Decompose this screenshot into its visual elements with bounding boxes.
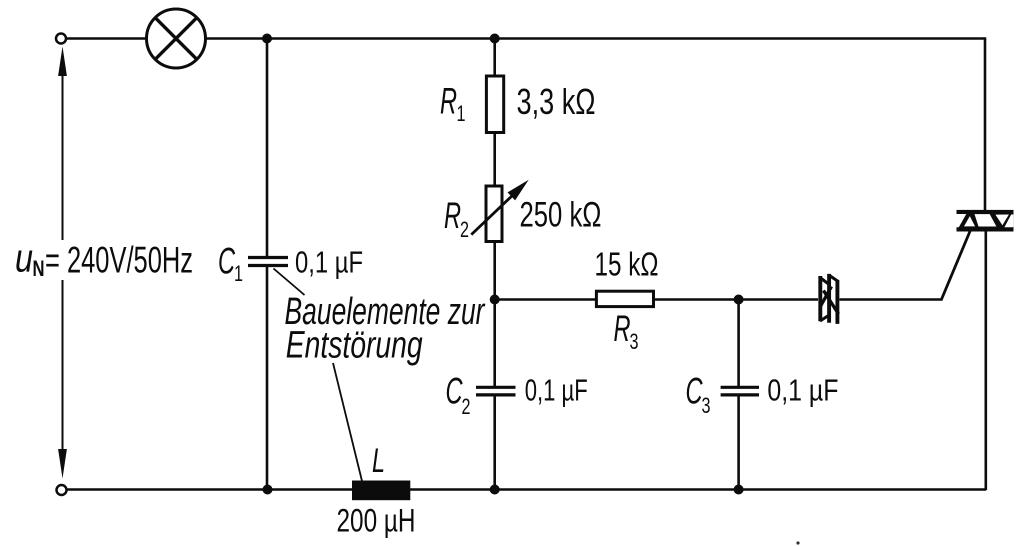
annotation Bauelemente zur Entstoerung	[285, 291, 486, 367]
stray dot artifact	[796, 541, 799, 544]
wire right vertical lower (from triac to bottom)	[984, 231, 987, 491]
resistor R3	[596, 291, 653, 306]
wire R branch top (node to R1)	[493, 39, 496, 78]
triac	[957, 210, 1014, 232]
svg-text:= 240V/50Hz: = 240V/50Hz	[45, 240, 193, 281]
leader line C1 to annotation	[274, 269, 305, 296]
terminal bottom-left	[57, 485, 67, 495]
svg-text:N: N	[33, 256, 45, 281]
label R2	[444, 195, 469, 242]
node mid R branch	[490, 295, 500, 305]
wire right vertical upper (to triac)	[984, 39, 987, 212]
label 250 kOhm	[520, 196, 602, 235]
wire gate diagonal to triac	[941, 231, 970, 301]
voltage measuring arrow uN (double-headed)	[58, 47, 67, 479]
label 200 uH	[337, 503, 416, 539]
svg-text:C: C	[446, 371, 463, 412]
label 3,3 kOhm	[517, 81, 596, 122]
wire R2 to mid node	[493, 242, 496, 301]
wire R1 to R2	[493, 133, 496, 188]
svg-text:200 µH: 200 µH	[337, 503, 416, 539]
capacitor C3	[721, 387, 759, 395]
svg-text:2: 2	[462, 394, 471, 419]
wire top horizontal right segment	[206, 37, 987, 40]
svg-text:3,3 kΩ: 3,3 kΩ	[517, 81, 596, 122]
capacitor C2	[476, 387, 516, 395]
potentiometer R2 (variable resistor)	[471, 180, 528, 242]
capacitor C1	[248, 258, 288, 266]
svg-text:15 kΩ: 15 kΩ	[595, 246, 659, 283]
wire C1 branch vertical upper	[266, 39, 269, 257]
svg-text:1: 1	[234, 261, 243, 286]
svg-text:R: R	[614, 308, 631, 349]
wire C2 to bottom	[493, 396, 496, 490]
node top of R branch	[490, 34, 500, 44]
svg-text:R: R	[440, 81, 457, 122]
wire bottom horizontal	[67, 488, 987, 491]
wire C1 branch vertical lower	[266, 267, 269, 490]
label C3	[686, 371, 711, 419]
svg-text:0,1 µF: 0,1 µF	[295, 245, 363, 280]
wire diac to gate bend	[840, 298, 942, 300]
wire mid horizontal (R3 to diac)	[654, 298, 819, 300]
label 0,1 uF (C1)	[295, 245, 363, 280]
label 0,1 uF (C3)	[767, 373, 838, 408]
svg-text:2: 2	[460, 217, 469, 242]
svg-text:3: 3	[630, 329, 639, 354]
svg-text:C: C	[686, 371, 703, 412]
svg-text:3: 3	[702, 393, 711, 418]
svg-text:250 kΩ: 250 kΩ	[520, 196, 602, 235]
label 0,1 uF (C2)	[525, 373, 588, 408]
label C2	[446, 371, 471, 420]
wire C2 branch (node to C2)	[493, 300, 496, 387]
svg-text:0,1 µF: 0,1 µF	[525, 373, 588, 408]
node top of C1 branch	[262, 34, 272, 44]
svg-text:0,1 µF: 0,1 µF	[767, 373, 838, 408]
node bottom C3 branch	[734, 485, 744, 495]
svg-text:1: 1	[457, 101, 466, 126]
svg-text:C: C	[218, 241, 235, 282]
node mid C3 branch	[734, 295, 744, 305]
svg-text:L: L	[372, 442, 385, 480]
svg-text:u: u	[15, 237, 33, 281]
label L	[372, 442, 385, 480]
resistor R1	[486, 76, 503, 133]
wire top horizontal left segment	[66, 37, 147, 40]
label R3	[614, 308, 639, 354]
wire C3 branch (mid wire to C3)	[737, 300, 740, 387]
diac	[820, 274, 839, 324]
node bottom C1 branch	[263, 485, 273, 495]
label 15 kOhm	[595, 246, 659, 283]
label C1	[218, 241, 243, 287]
label uN = 240V/50Hz	[15, 237, 193, 282]
wire mid horizontal (node to R3)	[495, 298, 597, 300]
inductor L (filled choke)	[352, 481, 410, 501]
leader line annotation to L	[333, 363, 362, 481]
svg-text:R: R	[444, 195, 461, 236]
svg-text:Entstörung: Entstörung	[286, 325, 423, 367]
wire C3 to bottom	[737, 396, 740, 490]
terminal top-left	[56, 34, 66, 44]
label R1	[440, 81, 466, 127]
node bottom C2 branch	[490, 485, 500, 495]
lamp (circle with X)	[147, 9, 206, 68]
